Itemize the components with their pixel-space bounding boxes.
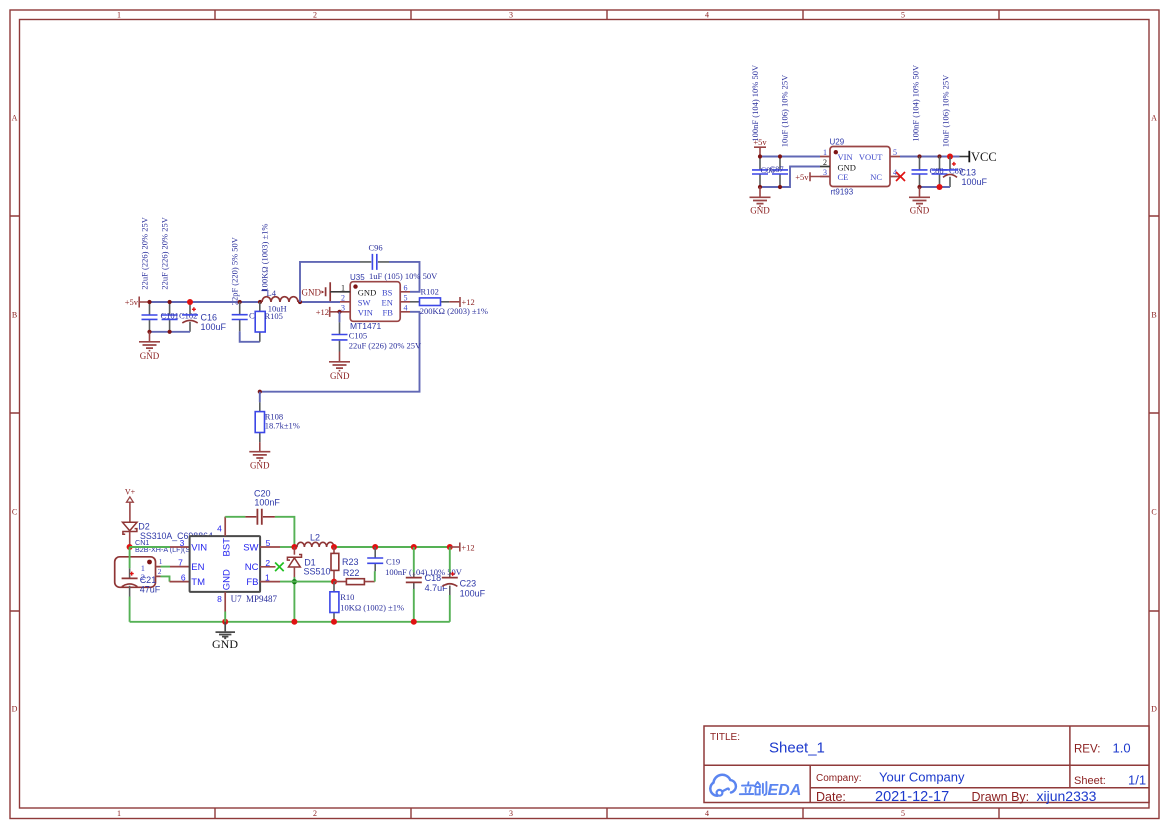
CN1 pin names <box>141 563 145 582</box>
power flag +5v at C86 <box>753 137 767 157</box>
svg-text:U7: U7 <box>231 594 242 604</box>
capacitor C13 polarized <box>942 157 958 188</box>
junction dot VIN <box>337 310 341 314</box>
wire C101 ground rail <box>150 331 191 333</box>
svg-text:1: 1 <box>117 11 121 20</box>
svg-text:C19: C19 <box>386 556 400 566</box>
svg-text:22pF (220) 5% 50V: 22pF (220) 5% 50V <box>230 236 240 305</box>
power flag +12 at U35 VIN <box>316 307 340 317</box>
U7 pin names <box>191 542 258 588</box>
capacitor C18 <box>406 547 422 622</box>
capacitor C88 <box>912 157 928 188</box>
svg-text:1uF (105) 10% 50V: 1uF (105) 10% 50V <box>369 271 438 281</box>
svg-text:R23: R23 <box>342 557 359 567</box>
svg-text:10uH: 10uH <box>268 304 287 314</box>
svg-text:C13: C13 <box>960 168 977 178</box>
net port VCC <box>960 150 997 164</box>
U7 pin numbers <box>178 524 271 605</box>
svg-text:BS: BS <box>382 287 393 297</box>
svg-text:D: D <box>1151 705 1157 714</box>
svg-text:BST: BST <box>221 538 232 557</box>
capacitor C96 <box>360 254 389 270</box>
junction dots VOUT rail <box>917 154 953 160</box>
svg-text:GND: GND <box>750 206 770 216</box>
svg-text:+5v: +5v <box>795 172 809 182</box>
svg-text:GND: GND <box>250 461 270 471</box>
svg-text:47uF: 47uF <box>140 585 161 595</box>
svg-text:Sheet:: Sheet: <box>1074 775 1106 787</box>
U35 pin 1 stub <box>340 291 350 293</box>
svg-text:B: B <box>12 311 17 320</box>
U29 pins right <box>890 157 900 177</box>
CN1 pins <box>156 567 161 577</box>
wire FB to feedback rail <box>260 312 420 392</box>
wire BST to C20 <box>225 516 245 518</box>
svg-text:3: 3 <box>180 538 185 548</box>
svg-text:Date:: Date: <box>816 790 846 804</box>
capacitor C23 polarized <box>442 547 458 622</box>
svg-text:R102: R102 <box>421 287 439 297</box>
svg-text:EN: EN <box>191 562 204 573</box>
wire SW node up to BS loop <box>300 262 420 302</box>
no-connect X on U7 NC <box>275 563 284 572</box>
svg-text:2021-12-17: 2021-12-17 <box>875 789 949 805</box>
inductor L2 <box>297 542 334 547</box>
resistor R108 <box>255 402 264 442</box>
column numbers bottom <box>117 809 905 818</box>
svg-text:5: 5 <box>901 809 905 818</box>
svg-text:100nF (104) 10% 50V: 100nF (104) 10% 50V <box>911 64 921 142</box>
svg-text:GND: GND <box>221 569 232 590</box>
IC U35 body <box>350 282 400 322</box>
capacitor C105 <box>332 322 348 351</box>
svg-text:1.0: 1.0 <box>1113 741 1131 756</box>
svg-text:100uF: 100uF <box>201 322 227 332</box>
junction dots top rail <box>331 544 453 550</box>
svg-text:2: 2 <box>158 567 162 576</box>
IC U29 body <box>830 147 890 187</box>
svg-text:C23: C23 <box>460 579 477 589</box>
wire VIN node down <box>339 312 341 323</box>
wire +5v to U29 VIN <box>760 156 820 158</box>
logo cloud icon <box>710 775 736 796</box>
svg-text:8: 8 <box>217 594 222 604</box>
capacitor C89 <box>932 157 948 188</box>
wire FB rail <box>280 581 334 583</box>
svg-text:rt9193: rt9193 <box>831 188 854 197</box>
no-connect X on U29 pin 4 <box>896 172 905 181</box>
logo text LiChuang <box>740 782 767 795</box>
row letters left <box>12 114 18 714</box>
svg-text:+12: +12 <box>462 297 475 307</box>
wire U7 GND pin to rail <box>224 612 226 622</box>
wire C20 to SW node <box>275 517 295 547</box>
resistor R23 <box>331 547 339 582</box>
svg-text:100uF: 100uF <box>460 588 486 598</box>
svg-text:4: 4 <box>217 524 222 534</box>
svg-text:2: 2 <box>313 11 317 20</box>
svg-text:C21: C21 <box>140 575 157 585</box>
svg-text:VIN: VIN <box>838 152 853 162</box>
power flag V+ <box>125 487 136 522</box>
power flag +5v at C101 <box>125 297 150 308</box>
title block border <box>704 726 1149 803</box>
junction dots ground rail <box>222 619 417 625</box>
U35 pins <box>340 292 410 312</box>
svg-text:GND: GND <box>910 206 930 216</box>
svg-text:GND: GND <box>330 371 350 381</box>
svg-text:EN: EN <box>382 297 393 307</box>
ground rail bottom <box>130 621 450 623</box>
ground GND at C101 <box>139 332 160 361</box>
svg-text:6: 6 <box>181 573 186 583</box>
svg-text:3: 3 <box>509 809 513 818</box>
IC U7 body <box>190 536 261 592</box>
svg-text:18.7k±1%: 18.7k±1% <box>265 421 300 431</box>
title block dividers <box>704 726 1149 803</box>
svg-text:2: 2 <box>313 809 317 818</box>
svg-text:FB: FB <box>383 307 394 317</box>
U35 pin names <box>358 287 393 317</box>
green junction dot FB crossing <box>292 579 297 584</box>
svg-text:GND: GND <box>302 287 322 297</box>
svg-text:A: A <box>12 114 18 123</box>
wire R22 to C19 <box>374 571 376 581</box>
svg-text:VOUT: VOUT <box>859 152 883 162</box>
svg-text:GND: GND <box>212 637 238 651</box>
svg-text:A: A <box>1151 114 1157 123</box>
svg-text:Company:: Company: <box>816 773 862 784</box>
svg-text:TITLE:: TITLE: <box>710 732 740 743</box>
ground flag GND at U35 pin1 <box>302 282 341 301</box>
svg-text:Your Company: Your Company <box>879 770 965 785</box>
U29 pin numbers <box>823 148 897 177</box>
capacitor C21 polarized <box>122 547 138 622</box>
capacitor C103 <box>232 302 248 331</box>
svg-text:MP9487: MP9487 <box>246 594 278 604</box>
svg-text:1: 1 <box>159 557 163 566</box>
capacitor C20 <box>245 509 275 525</box>
wire VOUT to VCC <box>900 156 960 158</box>
svg-text:7: 7 <box>178 558 183 568</box>
svg-text:xijun2333: xijun2333 <box>1037 788 1097 804</box>
ground GND at C86 <box>750 187 771 216</box>
capacitor C87 <box>772 157 788 188</box>
svg-text:1: 1 <box>117 809 121 818</box>
svg-text:4: 4 <box>705 11 709 20</box>
svg-text:EDA: EDA <box>768 782 802 799</box>
wire C103 to R105 node <box>240 331 260 341</box>
svg-text:GND: GND <box>838 162 856 172</box>
diode D1 SS510 <box>287 547 301 622</box>
power flag +12 at R102 <box>460 297 475 307</box>
U29 pin 2 stub <box>820 166 830 168</box>
svg-text:VIN: VIN <box>191 542 207 553</box>
ground GND black at U7 <box>212 622 238 651</box>
U7 EN pin stub <box>170 566 190 568</box>
svg-text:4: 4 <box>705 809 709 818</box>
U7 refdes and part <box>231 594 278 604</box>
power flag +12 bottom <box>450 542 475 552</box>
svg-text:SW: SW <box>243 542 258 553</box>
junction dot V+ node <box>127 544 133 550</box>
svg-text:NC: NC <box>245 562 259 573</box>
svg-text:R22: R22 <box>343 568 360 578</box>
svg-text:REV:: REV: <box>1074 744 1100 756</box>
svg-text:VIN: VIN <box>358 307 373 317</box>
svg-text:+5v: +5v <box>125 297 139 307</box>
connector CN1 body <box>115 557 156 588</box>
svg-text:3: 3 <box>509 11 513 20</box>
wire node to R108 <box>259 392 261 403</box>
L4 refdes <box>262 288 277 298</box>
svg-text:MT1471: MT1471 <box>350 321 381 331</box>
U7 TM pin stub <box>170 581 190 583</box>
svg-text:GND: GND <box>140 351 160 361</box>
svg-text:U29: U29 <box>830 138 845 147</box>
ground GND at R108 <box>249 442 270 471</box>
capacitor C101 <box>142 302 158 332</box>
svg-text:NC: NC <box>870 172 882 182</box>
svg-text:+12: +12 <box>461 542 474 552</box>
junction dot C16 <box>187 299 193 305</box>
svg-text:V+: V+ <box>125 487 136 496</box>
capacitor C16 polarized <box>182 302 198 332</box>
wire L2 to +12 <box>334 546 450 548</box>
svg-text:1/1: 1/1 <box>1128 773 1146 788</box>
junction dot FB node <box>331 579 337 585</box>
junction dots top-left <box>758 154 782 189</box>
svg-text:22uF (226) 20% 25V: 22uF (226) 20% 25V <box>349 340 422 350</box>
svg-text:C87: C87 <box>770 164 784 174</box>
junction dot SW node <box>291 544 297 550</box>
wire SW pin to node <box>280 546 294 548</box>
U35 pin numbers <box>341 283 408 312</box>
power flag +5v at U29 CE <box>795 172 820 182</box>
svg-text:100KΩ (1003) ±1%: 100KΩ (1003) ±1% <box>260 223 270 291</box>
svg-text:10KΩ (1002) ±1%: 10KΩ (1002) ±1% <box>340 603 404 613</box>
svg-text:D: D <box>12 705 18 714</box>
svg-text:+5v: +5v <box>753 137 767 147</box>
junction dots +5v rail <box>147 300 302 334</box>
wire CN1 pin2 to TM <box>161 576 170 581</box>
wire C88 C89 C13 ground rail <box>920 186 951 188</box>
wire V+ node to U7 VIN <box>130 546 170 548</box>
svg-text:5: 5 <box>901 11 905 20</box>
svg-text:C: C <box>12 508 17 517</box>
diode D2 SS310A <box>123 522 138 547</box>
svg-text:Sheet_1: Sheet_1 <box>769 740 825 757</box>
svg-text:Drawn By:: Drawn By: <box>972 790 1030 804</box>
svg-text:CE: CE <box>838 172 849 182</box>
U7 pins right and vertical <box>225 517 280 612</box>
svg-text:100uF: 100uF <box>962 177 988 187</box>
svg-text:C96: C96 <box>369 242 383 252</box>
junction dots right rail <box>917 184 942 190</box>
svg-text:100nF: 100nF <box>254 498 280 508</box>
svg-text:L2: L2 <box>310 533 320 543</box>
resistor R22 <box>334 579 375 585</box>
svg-text:10uF (106) 10% 25V: 10uF (106) 10% 25V <box>780 74 790 147</box>
svg-text:+12: +12 <box>316 307 329 317</box>
junction dot feedback node <box>258 390 262 394</box>
svg-text:C88: C88 <box>930 166 944 176</box>
svg-text:GND: GND <box>358 287 376 297</box>
svg-text:C16: C16 <box>201 312 218 322</box>
svg-text:TM: TM <box>191 577 205 588</box>
svg-text:SS510: SS510 <box>304 567 331 577</box>
row letters right <box>1151 114 1157 714</box>
svg-text:VCC: VCC <box>971 150 997 164</box>
svg-text:22uF (226) 20% 25V: 22uF (226) 20% 25V <box>140 216 150 289</box>
U7 VIN pin stub <box>170 546 190 548</box>
svg-text:B: B <box>1151 311 1156 320</box>
ground GND at C88 <box>909 187 930 216</box>
resistor R102 <box>410 298 459 306</box>
resistor R105 <box>255 302 265 342</box>
capacitor C102 <box>162 302 178 332</box>
wire CN1 pin1 to EN <box>161 566 171 568</box>
capacitor C19 <box>367 547 383 571</box>
resistor R10 <box>330 582 339 622</box>
ground GND at C105 <box>329 352 350 381</box>
CN1 pin numbers <box>158 557 163 576</box>
svg-text:C101: C101 <box>161 311 179 321</box>
svg-text:R10: R10 <box>340 592 354 602</box>
U29 pins left <box>820 157 830 177</box>
svg-text:10uF (106) 10% 25V: 10uF (106) 10% 25V <box>941 74 951 147</box>
svg-text:100nF (104) 10% 50V: 100nF (104) 10% 50V <box>750 64 760 142</box>
svg-text:C105: C105 <box>349 331 367 341</box>
wire +5v rail to SW <box>150 301 341 303</box>
inductor L4 <box>262 297 298 302</box>
capacitor C86 <box>752 157 768 188</box>
svg-text:FB: FB <box>246 577 258 588</box>
svg-text:22uF (226) 20% 25V: 22uF (226) 20% 25V <box>160 216 170 289</box>
svg-text:U35: U35 <box>350 273 365 282</box>
svg-text:C102: C102 <box>179 311 197 321</box>
svg-text:200KΩ (2003) ±1%: 200KΩ (2003) ±1% <box>420 306 488 316</box>
wire C86 C87 ground rail to pin2 <box>760 167 820 188</box>
column numbers top <box>117 11 905 20</box>
svg-text:C18: C18 <box>425 573 442 583</box>
svg-text:SW: SW <box>358 297 371 307</box>
svg-text:C: C <box>1151 508 1156 517</box>
U29 pin names <box>838 152 884 182</box>
